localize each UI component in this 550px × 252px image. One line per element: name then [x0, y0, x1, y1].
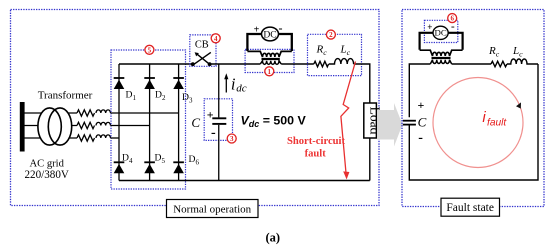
svg-text:1: 1 [268, 68, 272, 76]
capacitor C (dc link) [218, 64, 220, 117]
svg-text:DC: DC [263, 29, 276, 40]
svg-text:Short-circuit: Short-circuit [287, 136, 346, 147]
svg-text:+: + [427, 22, 432, 32]
dashed box 4: circuit breaker [190, 35, 216, 66]
arrow i_dc [225, 77, 227, 93]
transition arrow (normal to fault) [377, 103, 403, 147]
svg-text:Normal operation: Normal operation [173, 203, 251, 215]
svg-text:CB: CB [195, 40, 209, 51]
wire: CB to DC injection transformer [210, 63, 261, 65]
breaker CB contacts and blades [191, 62, 195, 66]
svg-text:-: - [211, 126, 216, 141]
transformer secondary (bottom winding, in series with rail) [260, 61, 281, 65]
svg-text:220/380V: 220/380V [25, 169, 69, 181]
svg-text:Fault state: Fault state [446, 202, 494, 214]
svg-text:2: 2 [329, 31, 333, 39]
wire: U1 thick leads [247, 34, 291, 51]
wire: phase B from bus to bridge [25, 125, 78, 127]
svg-text:C: C [418, 115, 427, 130]
svg-text:-: - [418, 131, 423, 146]
mask rail under fault resistor/inductor [452, 63, 491, 65]
diode D3 [173, 80, 184, 89]
fault transformer core [432, 56, 451, 58]
fault current loop circle [433, 78, 523, 168]
capacitor C (fault loop) [403, 120, 416, 122]
wire: bridge leg 3 [178, 64, 180, 181]
DC source U1 [262, 27, 279, 41]
outer dashed box: normal operation region [11, 10, 380, 206]
resistor Rc [314, 61, 329, 67]
dashed box 6: DC source in fault state [424, 20, 457, 42]
svg-text:dc: dc [236, 83, 247, 95]
diode D6 [173, 164, 184, 173]
diode D4 [114, 164, 125, 173]
wire: phase A to leg 3 [111, 112, 179, 114]
wire: dc top rail (bridge to CB) [119, 63, 193, 65]
diode D2 [144, 80, 155, 89]
svg-text:C: C [191, 115, 200, 130]
label Fault state [441, 198, 500, 216]
wire: bridge leg 1 [118, 64, 120, 181]
fault transformer secondary (bottom winding) [430, 60, 451, 64]
wire: U2 thick leads [420, 33, 463, 50]
inductor: phase C line impedance [96, 135, 110, 138]
wire: load to bottom rail [369, 138, 371, 181]
inductor: phase B line impedance [96, 122, 110, 125]
svg-text:3: 3 [230, 135, 234, 143]
circled 1 [265, 67, 274, 76]
resistor: phase C line impedance [77, 135, 95, 141]
label Normal operation [167, 200, 259, 218]
svg-text:(a): (a) [266, 231, 281, 245]
wire: phase B to leg 2 [111, 125, 150, 127]
dashed box 2: Rc Lc [308, 34, 362, 75]
DC source U2 [433, 26, 448, 39]
circled 4 [211, 34, 220, 43]
inductor Lc (fault) [507, 59, 538, 64]
diode D1 [114, 80, 125, 89]
svg-text:4: 4 [214, 35, 218, 43]
svg-text:i: i [231, 75, 236, 94]
circled 3 [227, 134, 236, 143]
wire: phase A from bus to bridge [25, 112, 78, 114]
dashed box 3: dc-link capacitor [204, 99, 232, 141]
resistor Rc (fault) [491, 61, 507, 67]
fault transformer primary (top winding) [420, 50, 463, 56]
fault loop wires [409, 64, 538, 180]
svg-text:DC: DC [434, 28, 446, 38]
diode D5 [144, 164, 155, 173]
resistor: phase B line impedance [77, 122, 95, 128]
load box [364, 103, 377, 138]
svg-text:fault: fault [305, 148, 327, 159]
svg-text:-: - [451, 21, 455, 33]
circled 2 [326, 30, 335, 39]
svg-text:fault: fault [487, 117, 507, 128]
transformer primary (top winding) [247, 51, 291, 57]
dashed box 5: rectifier bridge [111, 50, 186, 189]
transformer T1 winding circles [38, 108, 61, 145]
svg-text:+: + [207, 108, 214, 122]
transformer core [262, 57, 280, 59]
wire: bridge leg 2 [149, 64, 151, 181]
dashed box 1: fault injection transformer [245, 49, 294, 72]
short-circuit fault bolt [341, 62, 356, 174]
circled 6 [448, 14, 457, 23]
wire: transformer to Rc [281, 63, 314, 65]
svg-text:5: 5 [148, 46, 152, 54]
svg-text:AC grid: AC grid [29, 158, 64, 169]
wire: phase C from bus to bridge [25, 137, 78, 139]
resistor: phase A line impedance [77, 110, 95, 116]
svg-text:Transformer: Transformer [38, 90, 93, 102]
wire: dc bottom rail [119, 180, 370, 182]
outer dashed box: fault state region [402, 10, 544, 207]
wire: phase C to leg 1 [111, 137, 120, 139]
inductor Lc [329, 59, 354, 64]
svg-text:+: + [417, 98, 424, 112]
AC grid bus bar [20, 102, 25, 152]
circled 5 [145, 45, 154, 54]
inductor: phase A line impedance [96, 110, 110, 113]
wire: Lc to right rail [354, 64, 370, 103]
